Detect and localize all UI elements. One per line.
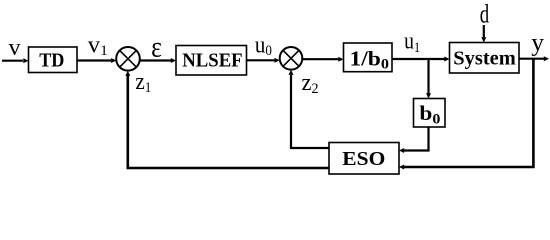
wire z2 from ESO to sum2 — [291, 75, 329, 148]
wire TD to sum1 — [77, 59, 111, 61]
wire NLSEF to sum2 — [247, 59, 275, 61]
block TD — [29, 47, 78, 73]
wire 1/b0 to System — [392, 58, 445, 60]
svg-text:d: d — [480, 0, 489, 29]
block NLSEF — [176, 46, 247, 76]
summing junction S1 — [116, 47, 140, 71]
wire d into System — [483, 25, 485, 38]
svg-text:NLSEF: NLSEF — [182, 50, 242, 72]
wire z1 from ESO to sum1 — [128, 76, 329, 169]
wire sum1 to NLSEF — [140, 59, 171, 61]
svg-text:ε: ε — [151, 31, 162, 64]
svg-text:v: v — [9, 35, 21, 61]
label epsilon — [151, 31, 162, 64]
wire sum2 to 1/b0 — [302, 58, 338, 60]
node u1 branch down to b0 — [427, 59, 429, 94]
wire System output y — [519, 58, 544, 60]
svg-text:y: y — [531, 27, 544, 56]
summing junction S2 — [280, 47, 303, 70]
wire b0 to ESO — [404, 127, 429, 151]
wire y feedback down and left to ESO — [404, 59, 533, 167]
block b0 — [414, 99, 446, 128]
block System — [450, 43, 520, 74]
svg-text:ESO: ESO — [342, 148, 385, 170]
svg-text:TD: TD — [39, 50, 64, 72]
block 1/b0 — [344, 43, 393, 72]
block ESO — [329, 143, 399, 175]
svg-text:System: System — [453, 47, 516, 69]
wire v input — [2, 60, 23, 62]
